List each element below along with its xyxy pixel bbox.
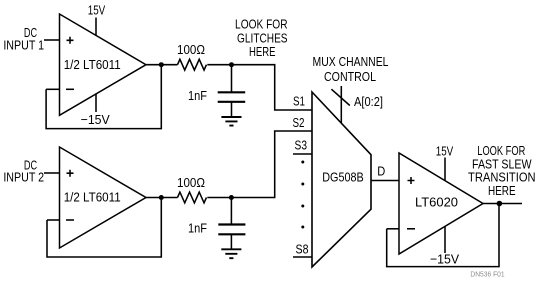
- op-amp U1b 1/2 LT6011 (bottom): [60, 147, 147, 248]
- svg-text:15V: 15V: [88, 3, 106, 18]
- resistor R1 100 ohm: [178, 59, 207, 70]
- U1b minus input symbol: [66, 219, 74, 221]
- label S2: [293, 115, 305, 130]
- label DN536 F01: [470, 272, 504, 279]
- label DC INPUT 1: [3, 25, 44, 52]
- wire S8 stub: [293, 256, 312, 258]
- svg-text:−15V: −15V: [430, 252, 459, 267]
- wire C2 bottom lead: [230, 234, 232, 249]
- wire C1 bottom lead: [231, 102, 233, 117]
- wire U1a -15V supply stub: [95, 94, 97, 113]
- label -15V (U3 supply): [430, 252, 459, 267]
- svg-text:15V: 15V: [436, 143, 454, 158]
- U3 plus input symbol: [408, 177, 415, 184]
- wire DC input 2 stub: [44, 172, 60, 174]
- label S3: [295, 138, 308, 153]
- wire DC input 1 stub: [44, 39, 60, 41]
- wire U3 -15V supply stub: [444, 226, 446, 253]
- U1b plus input symbol: [67, 170, 74, 177]
- label 15V (U3 supply): [436, 143, 454, 158]
- node S6 dot: [301, 205, 304, 208]
- resistor R2 100 ohm: [178, 192, 207, 203]
- svg-text:1nF: 1nF: [188, 220, 207, 235]
- capacitor C1 1nF: [218, 92, 246, 102]
- wire U1b minus stub: [47, 219, 60, 221]
- U1a plus input symbol: [67, 37, 74, 44]
- U1b label 1/2 LT6011: [64, 189, 121, 204]
- svg-text:A[0:2]: A[0:2]: [354, 94, 383, 109]
- svg-text:100Ω: 100Ω: [177, 175, 205, 190]
- svg-text:INPUT 1: INPUT 1: [3, 38, 44, 53]
- U3 label LT6020: [415, 194, 458, 209]
- label LOOK FOR FAST SLEW TRANSITION HERE: [468, 143, 536, 198]
- svg-text:−15V: −15V: [81, 112, 110, 127]
- label S8: [296, 241, 309, 256]
- mux U2 DG508B body: [312, 92, 371, 267]
- svg-text:1nF: 1nF: [188, 88, 207, 103]
- label DG508B: [322, 170, 364, 185]
- wire D output to U3: [371, 180, 399, 182]
- label 100 ohm (R2): [177, 175, 205, 190]
- wire U3 output: [483, 203, 522, 205]
- label S1: [293, 94, 305, 109]
- node R2/C2 junction: [229, 195, 234, 200]
- label D: [377, 163, 385, 178]
- label A[0:2]: [354, 94, 383, 109]
- node U3 output junction: [497, 201, 503, 207]
- svg-text:S2: S2: [293, 115, 305, 130]
- wire U1b output: [146, 197, 178, 199]
- wire U3 minus stub: [387, 228, 399, 230]
- label 15V (U1a supply): [88, 3, 106, 18]
- wire R2 to S2 corner: [207, 131, 312, 198]
- svg-text:D: D: [377, 163, 385, 178]
- wire mux control line: [340, 86, 342, 123]
- wire U1a +15V supply stub: [95, 18, 97, 36]
- node S4 dot: [301, 161, 304, 164]
- svg-text:MUX CHANNEL: MUX CHANNEL: [313, 54, 389, 69]
- node S5 dot: [301, 183, 304, 186]
- node U1b output junction: [159, 195, 164, 200]
- svg-text:S3: S3: [295, 138, 308, 153]
- op-amp U1a 1/2 LT6011 (top): [60, 14, 147, 115]
- U1a label 1/2 LT6011: [64, 57, 121, 72]
- wire U1a feedback loop: [46, 65, 161, 129]
- wire R1 to S1 corner: [207, 65, 312, 110]
- svg-text:1/2 LT6011: 1/2 LT6011: [64, 57, 121, 72]
- svg-text:S1: S1: [293, 94, 305, 109]
- wire S3 stub: [293, 153, 312, 155]
- op-amp U3 LT6020: [399, 153, 483, 254]
- svg-text:HERE: HERE: [488, 183, 516, 198]
- svg-text:DG508B: DG508B: [322, 170, 364, 185]
- svg-text:DN536 F01: DN536 F01: [470, 272, 504, 279]
- svg-text:CONTROL: CONTROL: [324, 69, 376, 84]
- label MUX CHANNEL CONTROL: [313, 54, 389, 84]
- svg-text:1/2 LT6011: 1/2 LT6011: [64, 189, 121, 204]
- label 100 ohm (R1): [177, 42, 205, 57]
- node S7 dot: [301, 226, 304, 229]
- bus slash A[0:2]: [331, 89, 349, 105]
- wire U1a minus stub: [46, 88, 59, 90]
- wire U3 feedback loop: [387, 204, 499, 267]
- label -15V (U1a supply): [81, 112, 110, 127]
- wire U1a output: [146, 64, 178, 66]
- svg-text:100Ω: 100Ω: [177, 42, 205, 57]
- svg-text:INPUT 2: INPUT 2: [3, 170, 44, 185]
- wire U3 +15V supply stub: [444, 158, 446, 182]
- svg-text:S8: S8: [296, 241, 309, 256]
- node R1/C1 junction: [229, 62, 234, 67]
- ground (C2): [221, 249, 241, 258]
- U3 minus input symbol: [407, 228, 415, 230]
- svg-text:LT6020: LT6020: [415, 194, 458, 209]
- label LOOK FOR GLITCHES HERE: [235, 17, 288, 60]
- label DC INPUT 2: [3, 157, 44, 184]
- ground (C1): [221, 117, 241, 126]
- wire C1 top lead: [231, 65, 233, 93]
- svg-text:GLITCHES: GLITCHES: [237, 30, 288, 45]
- wire U1b feedback loop: [47, 198, 161, 258]
- wire C2 top lead: [230, 198, 232, 225]
- svg-text:LOOK FOR: LOOK FOR: [235, 17, 288, 32]
- label 1nF (C2): [188, 220, 207, 235]
- svg-text:HERE: HERE: [249, 44, 276, 59]
- U1a minus input symbol: [66, 88, 74, 90]
- capacitor C2 1nF: [218, 225, 245, 235]
- label 1nF (C1): [188, 88, 207, 103]
- node U1a output junction: [159, 62, 164, 67]
